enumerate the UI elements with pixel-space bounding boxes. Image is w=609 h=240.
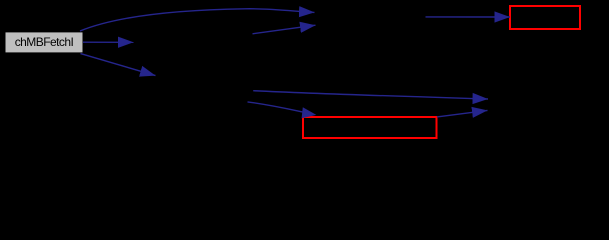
edge a: chMBFetchI -> node B (long top curve)	[80, 9, 315, 31]
edge e: node B -> top-right red node	[426, 16, 511, 18]
node top-right (red border, truncated)	[510, 6, 580, 29]
edge b: chMBFetchI -> node A (short horizontal arrow)	[83, 41, 134, 43]
node chMBFetchI (grey box)	[6, 32, 83, 52]
svg-text:chMBFetchI: chMBFetchI	[15, 35, 74, 49]
node bottom-center (red border, truncated)	[303, 117, 437, 138]
edge d: node A -> node B	[253, 25, 316, 34]
edge g: node C -> bottom red node (arrow onto its top-left)	[248, 102, 303, 112]
edge f: node C -> node D (long shallow curve)	[253, 91, 488, 99]
edge c: chMBFetchI -> node C (diagonal down)	[81, 54, 156, 76]
edge h: bottom red node -> node D	[437, 110, 488, 117]
